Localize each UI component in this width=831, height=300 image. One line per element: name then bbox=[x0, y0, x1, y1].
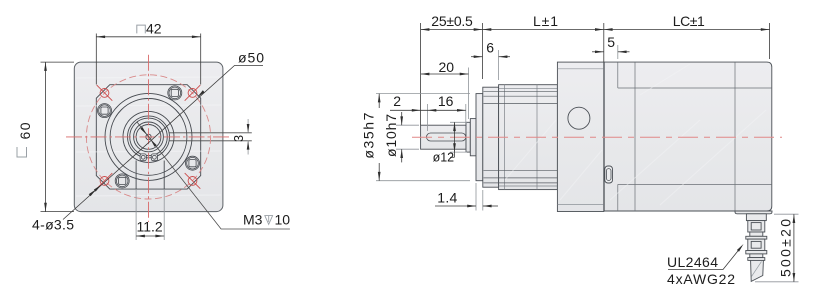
shaft collar d12 bbox=[466, 122, 470, 152]
mounting hole 3.5 bottom-right bbox=[185, 173, 201, 189]
svg-text:500±20: 500±20 bbox=[778, 219, 794, 277]
svg-text:5: 5 bbox=[607, 34, 615, 50]
socket screw bottom-right bbox=[186, 156, 200, 170]
bearing step d15 bbox=[470, 119, 476, 156]
centerline horizontal bbox=[66, 136, 231, 138]
adapter highlight lines bbox=[557, 69, 603, 205]
bottom boss edges (11.2 feature) bbox=[136, 161, 164, 190]
dimension d12 bbox=[450, 122, 467, 152]
cable gland flange 2 bbox=[746, 251, 767, 254]
dimension 6 (flange thickness) bbox=[0, 0, 1, 1]
cable gland neck bbox=[750, 232, 763, 236]
cable gland flange bbox=[746, 236, 767, 239]
mounting hole 3.5 bottom-left bbox=[97, 173, 113, 189]
bolt circle d50 (red dashed) bbox=[86, 75, 210, 199]
output shaft circle d10h7 bbox=[136, 124, 161, 149]
svg-text:4xAWG22: 4xAWG22 bbox=[667, 271, 735, 287]
gearbox flange plate (42mm square, chamfered corners) bbox=[96, 85, 200, 189]
surface streaks (texture) bbox=[76, 77, 221, 196]
cable gland neck 2 bbox=[750, 254, 763, 258]
svg-text:20: 20 bbox=[439, 59, 455, 75]
center hole bbox=[146, 134, 151, 139]
stepper motor body (LC) bbox=[604, 62, 772, 211]
dimension 500+-20 (cable length) bbox=[755, 214, 799, 282]
motor front housing (60mm square) bbox=[74, 62, 223, 212]
svg-text:16: 16 bbox=[438, 93, 454, 109]
assembly screw bores (bottom) bbox=[484, 171, 558, 183]
top dimension chain 25 / L / LC bbox=[421, 23, 770, 125]
assembly screw bores (top) bbox=[484, 91, 558, 103]
cable gland stage 2 bbox=[748, 221, 765, 232]
hub circle d15 bbox=[130, 118, 168, 156]
shaft collar circle d12 bbox=[134, 122, 164, 152]
socket screw bottom-left bbox=[115, 174, 129, 188]
connector tab on motor face bbox=[605, 166, 613, 183]
motor adapter block (60 square) bbox=[557, 62, 603, 211]
adapter plug hole bbox=[568, 107, 590, 129]
svg-text:11.2: 11.2 bbox=[137, 218, 163, 234]
hub circle d17 bbox=[128, 116, 170, 158]
svg-text:42: 42 bbox=[146, 21, 162, 37]
dimension square42 bbox=[96, 34, 200, 85]
cable gland stage 3 bbox=[748, 239, 765, 250]
pilot boss circle d35h7 bbox=[105, 93, 192, 180]
motor bottom foot bbox=[735, 211, 772, 214]
dimension d35h7 bbox=[376, 94, 470, 181]
svg-text:ø10h7: ø10h7 bbox=[383, 114, 399, 157]
cable gland exit bbox=[748, 258, 765, 261]
svg-text:M3: M3 bbox=[243, 211, 263, 227]
shaft flat edge lines (3mm slot) bbox=[169, 133, 252, 141]
axis centerline bbox=[412, 136, 782, 138]
dimension 20 (shaft length) bbox=[0, 0, 1, 1]
M3 tapped hole right bbox=[151, 154, 157, 161]
svg-text:UL2464: UL2464 bbox=[667, 254, 718, 270]
gearbox housing seam lines bbox=[499, 85, 558, 190]
pilot boss d35h7 (1.4mm) bbox=[476, 94, 483, 181]
svg-text:ø35h7: ø35h7 bbox=[361, 112, 377, 158]
cable label leader bbox=[668, 247, 742, 270]
socket screw top-left bbox=[98, 104, 112, 118]
mounting hole 3.5 top-left bbox=[97, 85, 113, 101]
label M3 depth 10 bbox=[243, 211, 290, 227]
svg-text:L±1: L±1 bbox=[533, 13, 558, 29]
svg-text:10: 10 bbox=[275, 211, 291, 227]
dimension d10h7 bbox=[396, 125, 419, 149]
gearbox front flange plate (6mm) bbox=[483, 87, 499, 187]
centerline vertical bbox=[148, 55, 150, 222]
svg-text:1.4: 1.4 bbox=[437, 189, 457, 205]
leader M3 depth 10 bbox=[137, 122, 290, 229]
dimension 11.2 bbox=[136, 189, 164, 240]
hub circle d20.5 bbox=[123, 111, 174, 162]
svg-text:LC±1: LC±1 bbox=[673, 13, 705, 29]
dimension 2 / 16 (flat position) bbox=[0, 0, 1, 1]
motor end-bell seams bbox=[618, 62, 772, 211]
svg-text:ø12: ø12 bbox=[433, 150, 455, 164]
gearbox housing (42 square) bbox=[499, 85, 558, 190]
M3 tapped hole left bbox=[140, 154, 146, 161]
dimension 5 (motor pilot) bbox=[0, 0, 1, 1]
svg-text:6: 6 bbox=[486, 39, 494, 55]
recess circle d31 bbox=[110, 98, 187, 175]
dimension 3 (flat width) bbox=[247, 119, 249, 155]
leader line d50 / 4-d3.5 bbox=[63, 66, 263, 220]
shaft milled flat (16mm) bbox=[427, 133, 466, 141]
svg-text:60: 60 bbox=[17, 122, 33, 139]
surface streaks right (texture) bbox=[505, 64, 766, 205]
side view: output shaft d10h7 bbox=[421, 125, 466, 149]
socket screw top-right bbox=[168, 86, 182, 100]
svg-text:4-ø3.5: 4-ø3.5 bbox=[32, 216, 74, 232]
dimension 1.4 (boss height) bbox=[476, 183, 483, 211]
mounting hole 3.5 top-right bbox=[185, 85, 201, 101]
dimension square60 bbox=[41, 62, 75, 212]
cable gland stage 1 bbox=[746, 214, 766, 221]
cable (flat, cut end) bbox=[751, 260, 764, 281]
svg-text:2: 2 bbox=[393, 93, 401, 109]
svg-text:25±0.5: 25±0.5 bbox=[431, 13, 473, 29]
svg-text:3: 3 bbox=[232, 135, 246, 142]
svg-text:ø50: ø50 bbox=[238, 50, 264, 66]
